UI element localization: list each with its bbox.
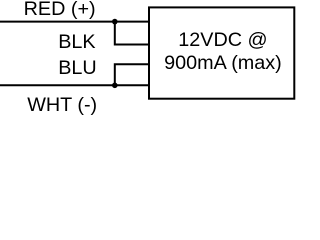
label WHT (-) wire: [27, 96, 97, 116]
wire RED (+) main line: [0, 21, 150, 23]
power supply box U1: [149, 7, 294, 98]
label BLU wire: [58, 59, 96, 79]
wire WHT (-) main line: [0, 84, 150, 86]
junction dot on RED line: [112, 19, 118, 25]
wire BLU branch: [115, 64, 150, 85]
label RED (+) wire: [24, 0, 96, 19]
value label 12VDC @ 900mA (max): [152, 29, 293, 75]
label BLK wire: [58, 33, 95, 53]
junction dot on WHT line: [112, 83, 118, 89]
wire BLK branch: [115, 22, 150, 45]
